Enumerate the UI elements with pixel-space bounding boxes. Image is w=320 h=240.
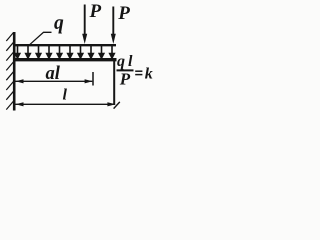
svg-text:P: P bbox=[119, 70, 131, 89]
wall hatching bbox=[6, 33, 13, 110]
svg-text:k: k bbox=[145, 66, 153, 83]
distributed load arrows bbox=[15, 46, 114, 58]
force P1 arrow bbox=[84, 5, 86, 37]
svg-text:P: P bbox=[89, 1, 102, 22]
svg-text:q: q bbox=[54, 13, 64, 34]
equals sign bbox=[135, 71, 142, 74]
overshoot slash at l dimension end bbox=[114, 102, 120, 109]
fraction bar bbox=[117, 69, 134, 71]
svg-text:l: l bbox=[63, 87, 68, 104]
right extension line at free end bbox=[113, 61, 115, 105]
wall (fixed support) bbox=[13, 32, 16, 111]
leader line to q bbox=[30, 32, 52, 45]
dimension line l bbox=[16, 103, 115, 105]
extension tick at al bbox=[92, 72, 94, 86]
svg-text:al: al bbox=[46, 64, 61, 84]
beam bbox=[13, 58, 117, 61]
svg-text:P: P bbox=[117, 3, 130, 24]
svg-text:ql: ql bbox=[117, 53, 135, 70]
force P2 arrow bbox=[112, 7, 114, 37]
dimension line al bbox=[16, 80, 93, 82]
distributed load top line bbox=[13, 44, 116, 46]
